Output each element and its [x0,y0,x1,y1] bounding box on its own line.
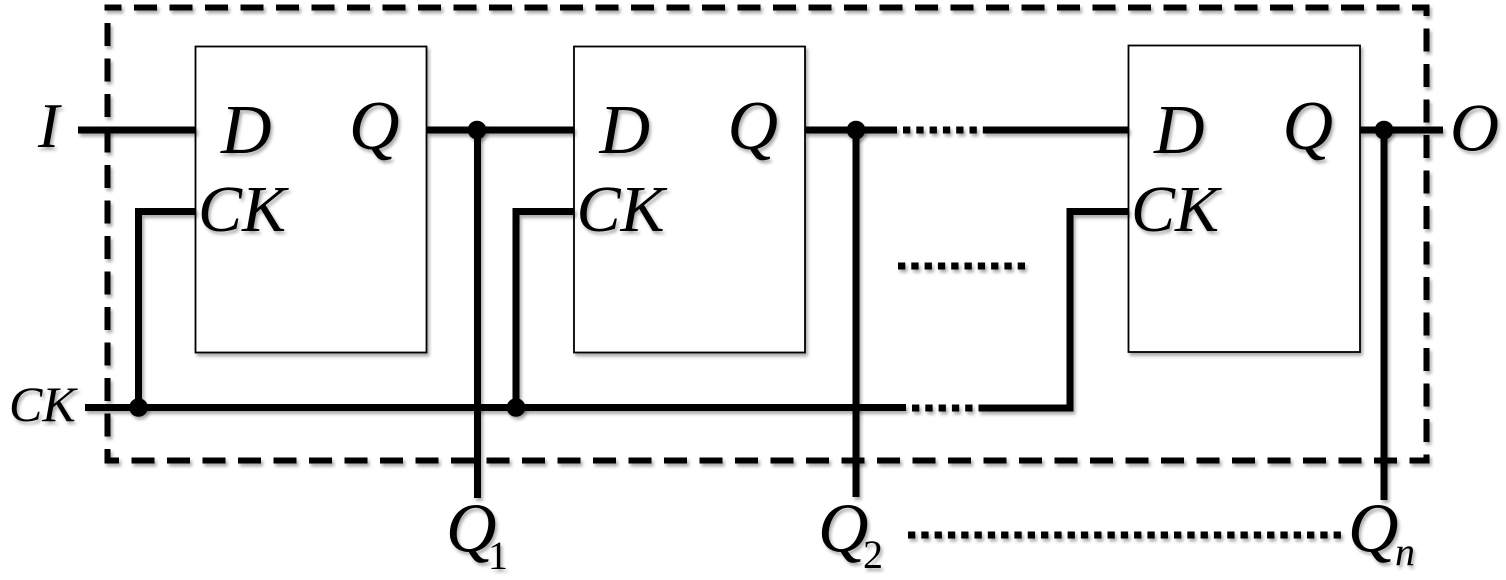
node Q2 junction dot [847,121,866,140]
node Qn junction dot [1375,121,1394,140]
flip-flop U1 box [196,47,427,353]
node CK junction dot at U2 riser [507,398,526,417]
wire: U3 Q to output O [1360,127,1443,134]
svg-text:CK: CK [577,173,668,246]
svg-text:D: D [599,92,651,169]
dotted continuation between Q2 and Qn labels [908,532,1341,539]
svg-text:Q: Q [1283,88,1334,165]
wire: into U3 D [984,127,1129,134]
wire: U2 Q toward U3 (solid part) [805,127,897,134]
svg-text:Q: Q [818,491,869,568]
svg-text:D: D [220,92,272,169]
node Q1 junction dot [468,121,487,140]
wire: CK bus horizontal [85,404,906,411]
dotted continuation between U2 and U3 (middle) [898,263,1031,270]
node CK junction dot at U1 riser [129,398,148,417]
wire: Q1 vertical tap [474,130,481,498]
svg-text:n: n [1395,529,1415,574]
svg-text:1: 1 [488,533,508,578]
wire: CK bus to U3 riser [983,212,1129,409]
flip-flop U2 box [574,47,805,353]
wire: dotted continuation on data path [903,127,984,134]
svg-text:I: I [37,90,62,161]
svg-text:2: 2 [863,532,883,577]
wire: Q2 vertical tap [853,130,860,497]
svg-text:D: D [1153,92,1205,169]
wire: CK riser to U2 [516,212,575,408]
svg-text:Q: Q [349,88,400,165]
svg-text:CK: CK [198,173,289,246]
wire: CK riser to U1 [139,212,197,408]
svg-text:Q: Q [1348,491,1399,568]
svg-text:O: O [1450,90,1499,166]
wire: U1 Q to U2 D [427,127,575,134]
wire: CK bus dotted continuation [912,405,983,412]
svg-text:CK: CK [1131,173,1222,246]
wire: input I to U1 D [78,127,196,134]
wire: Qn vertical tap [1381,130,1388,500]
dashed enclosure border [108,8,1427,461]
svg-text:CK: CK [9,376,78,432]
svg-text:Q: Q [728,88,779,165]
flip-flop U3 box [1129,46,1361,353]
